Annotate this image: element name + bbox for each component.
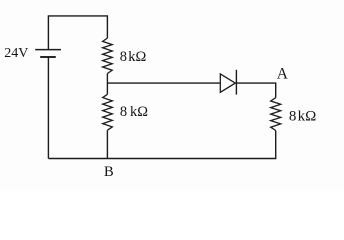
wire: top loop from battery positive up and across to resistor branch <box>48 16 107 50</box>
battery 24V long plate <box>35 49 61 51</box>
svg-text:8 kΩ: 8 kΩ <box>120 49 147 65</box>
battery 24V short plate <box>40 56 56 58</box>
wire: R3 bottom lead down to bottom wire <box>275 131 277 159</box>
wire: middle branch segment through junction between R1 and R2 <box>106 74 108 95</box>
wire: bottom return from right branch back to battery <box>48 158 276 160</box>
svg-text:24V: 24V <box>4 46 28 61</box>
svg-text:A: A <box>277 65 288 82</box>
wire: R2 bottom lead down to bottom wire <box>106 130 108 158</box>
svg-text:8 kΩ: 8 kΩ <box>289 108 316 124</box>
resistor R2 8kΩ (bottom middle) <box>103 94 113 130</box>
wire: diode cathode to node A corner and down to R3 <box>236 83 275 98</box>
svg-text:8 kΩ: 8 kΩ <box>120 104 148 120</box>
svg-text:B: B <box>104 164 114 180</box>
wire: horizontal from R1/R2 junction to diode anode <box>107 82 220 84</box>
diode D1 anode triangle <box>220 74 235 92</box>
resistor R3 8kΩ (right branch) <box>271 98 281 131</box>
resistor R1 8kΩ (top middle) <box>103 38 113 73</box>
wire: left branch from battery negative down to bottom wire <box>47 57 49 159</box>
diode D1 cathode bar <box>235 70 237 95</box>
